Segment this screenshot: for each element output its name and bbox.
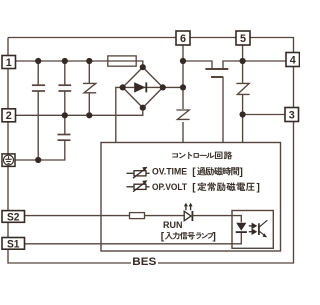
svg-text:OP.VOLT: OP.VOLT <box>152 182 187 193</box>
wire: C2 bottom lead to row 2 <box>64 91 66 115</box>
ground terminal (protective earth) <box>2 154 15 167</box>
wire: C1 top lead <box>37 61 39 85</box>
wire: C3 top lead <box>64 115 66 134</box>
wire: fuse to bridge top corner <box>136 61 143 67</box>
bridge diode D1 <box>123 82 163 92</box>
fuse F1 <box>108 56 136 66</box>
capacitor C1 <box>32 85 45 91</box>
label コントロール回路 (control circuit) <box>172 151 232 159</box>
control circuit box <box>101 143 281 252</box>
svg-text:[: [ <box>161 232 165 243</box>
wire: node 243 down to control box <box>242 115 244 143</box>
wire: transistor gate lead to control box <box>222 77 224 143</box>
label 入力信号ランプ (input signal lamp) <box>165 232 215 240</box>
svg-text:4: 4 <box>290 54 296 66</box>
terminal 5 <box>236 31 250 45</box>
wire: R1 to RUN LED <box>145 215 185 217</box>
terminal 3 <box>285 108 299 122</box>
wire: bridge right corner to node at col 183 <box>163 86 183 88</box>
svg-text:S2: S2 <box>7 211 20 223</box>
wire: ground terminal to capacitor return <box>15 140 65 160</box>
svg-text:RUN: RUN <box>163 220 183 231</box>
varistor Z1 <box>83 83 96 92</box>
svg-text:5: 5 <box>240 33 246 45</box>
brackets for JP labels <box>161 167 260 243</box>
optocoupler LED <box>236 223 247 232</box>
wire: Z3 bottom lead <box>242 95 244 115</box>
varistor Z3 <box>236 83 249 94</box>
terminal 2 <box>2 109 16 122</box>
wire: node 243 to terminal 4 <box>243 60 286 62</box>
wire: Z1 bottom lead <box>88 93 90 115</box>
optocoupler phototransistor <box>259 220 268 237</box>
svg-text:[: [ <box>192 167 196 178</box>
svg-text:S1: S1 <box>7 238 20 250</box>
wire: Z2 top lead <box>182 87 184 109</box>
unit outline border (BES) <box>8 38 294 264</box>
varistor Z2 <box>176 110 189 119</box>
bridge rectifier diamond <box>123 67 163 108</box>
svg-text:OV.TIME: OV.TIME <box>152 166 188 177</box>
LED RUN <box>184 203 193 221</box>
transistor Q1 (semiconductor switch) <box>205 69 228 77</box>
wire: terminal 1 to fuse (row 1) <box>16 60 108 62</box>
wire: terminal 6 down to row1 node <box>182 45 184 87</box>
wire: terminal 2 row to bridge bottom corner (row 2) <box>16 108 143 116</box>
capacitor C2 <box>58 85 71 91</box>
terminal S1 <box>2 238 25 251</box>
svg-text:2: 2 <box>6 110 12 122</box>
label 定常励磁電圧 (steady excitation voltage) <box>197 182 254 191</box>
trimmer VR2 (OP.VOLT) <box>127 180 150 192</box>
wire: node 243 to terminal 3 <box>243 114 285 116</box>
svg-text:[: [ <box>192 183 196 194</box>
capacitor C3 <box>58 135 71 141</box>
wire: bridge left corner to control box <box>116 87 123 142</box>
svg-text:1: 1 <box>6 57 12 69</box>
terminal S2 <box>2 211 25 224</box>
wire: Z1 top lead <box>88 61 90 83</box>
svg-text:3: 3 <box>289 109 295 121</box>
wire: C1 bottom lead down to ground row <box>37 91 39 160</box>
optocoupler light arrows <box>249 224 256 234</box>
terminal 4 <box>286 53 300 67</box>
svg-text:]: ] <box>240 167 243 178</box>
optocoupler box PC1 <box>232 211 273 249</box>
svg-text:BES: BES <box>132 256 156 268</box>
trimmer VR1 (OV.TIME) <box>127 167 150 179</box>
wire: node 183 to transistor left stub <box>183 61 212 68</box>
terminal 6 <box>176 31 190 45</box>
wire: terminal 5 down to row1 node <box>242 45 244 61</box>
svg-text:]: ] <box>257 183 260 194</box>
wire: Z2 bottom lead to control box <box>182 122 184 143</box>
resistor R1 <box>130 213 145 219</box>
wire: S1 return from opto LED cathode <box>25 233 242 244</box>
svg-text:6: 6 <box>180 33 186 45</box>
wire: Z3 top lead <box>242 61 244 83</box>
wire: S2 to resistor R1 <box>25 215 130 217</box>
wire: C2 top lead <box>64 61 66 85</box>
wire: transistor right stub to node 243 <box>223 61 243 68</box>
junction dots <box>35 58 246 163</box>
label 過励磁時間 (over-excitation time) <box>197 167 239 175</box>
wire: RUN LED to optocoupler <box>192 216 241 223</box>
terminal 1 <box>2 56 16 69</box>
